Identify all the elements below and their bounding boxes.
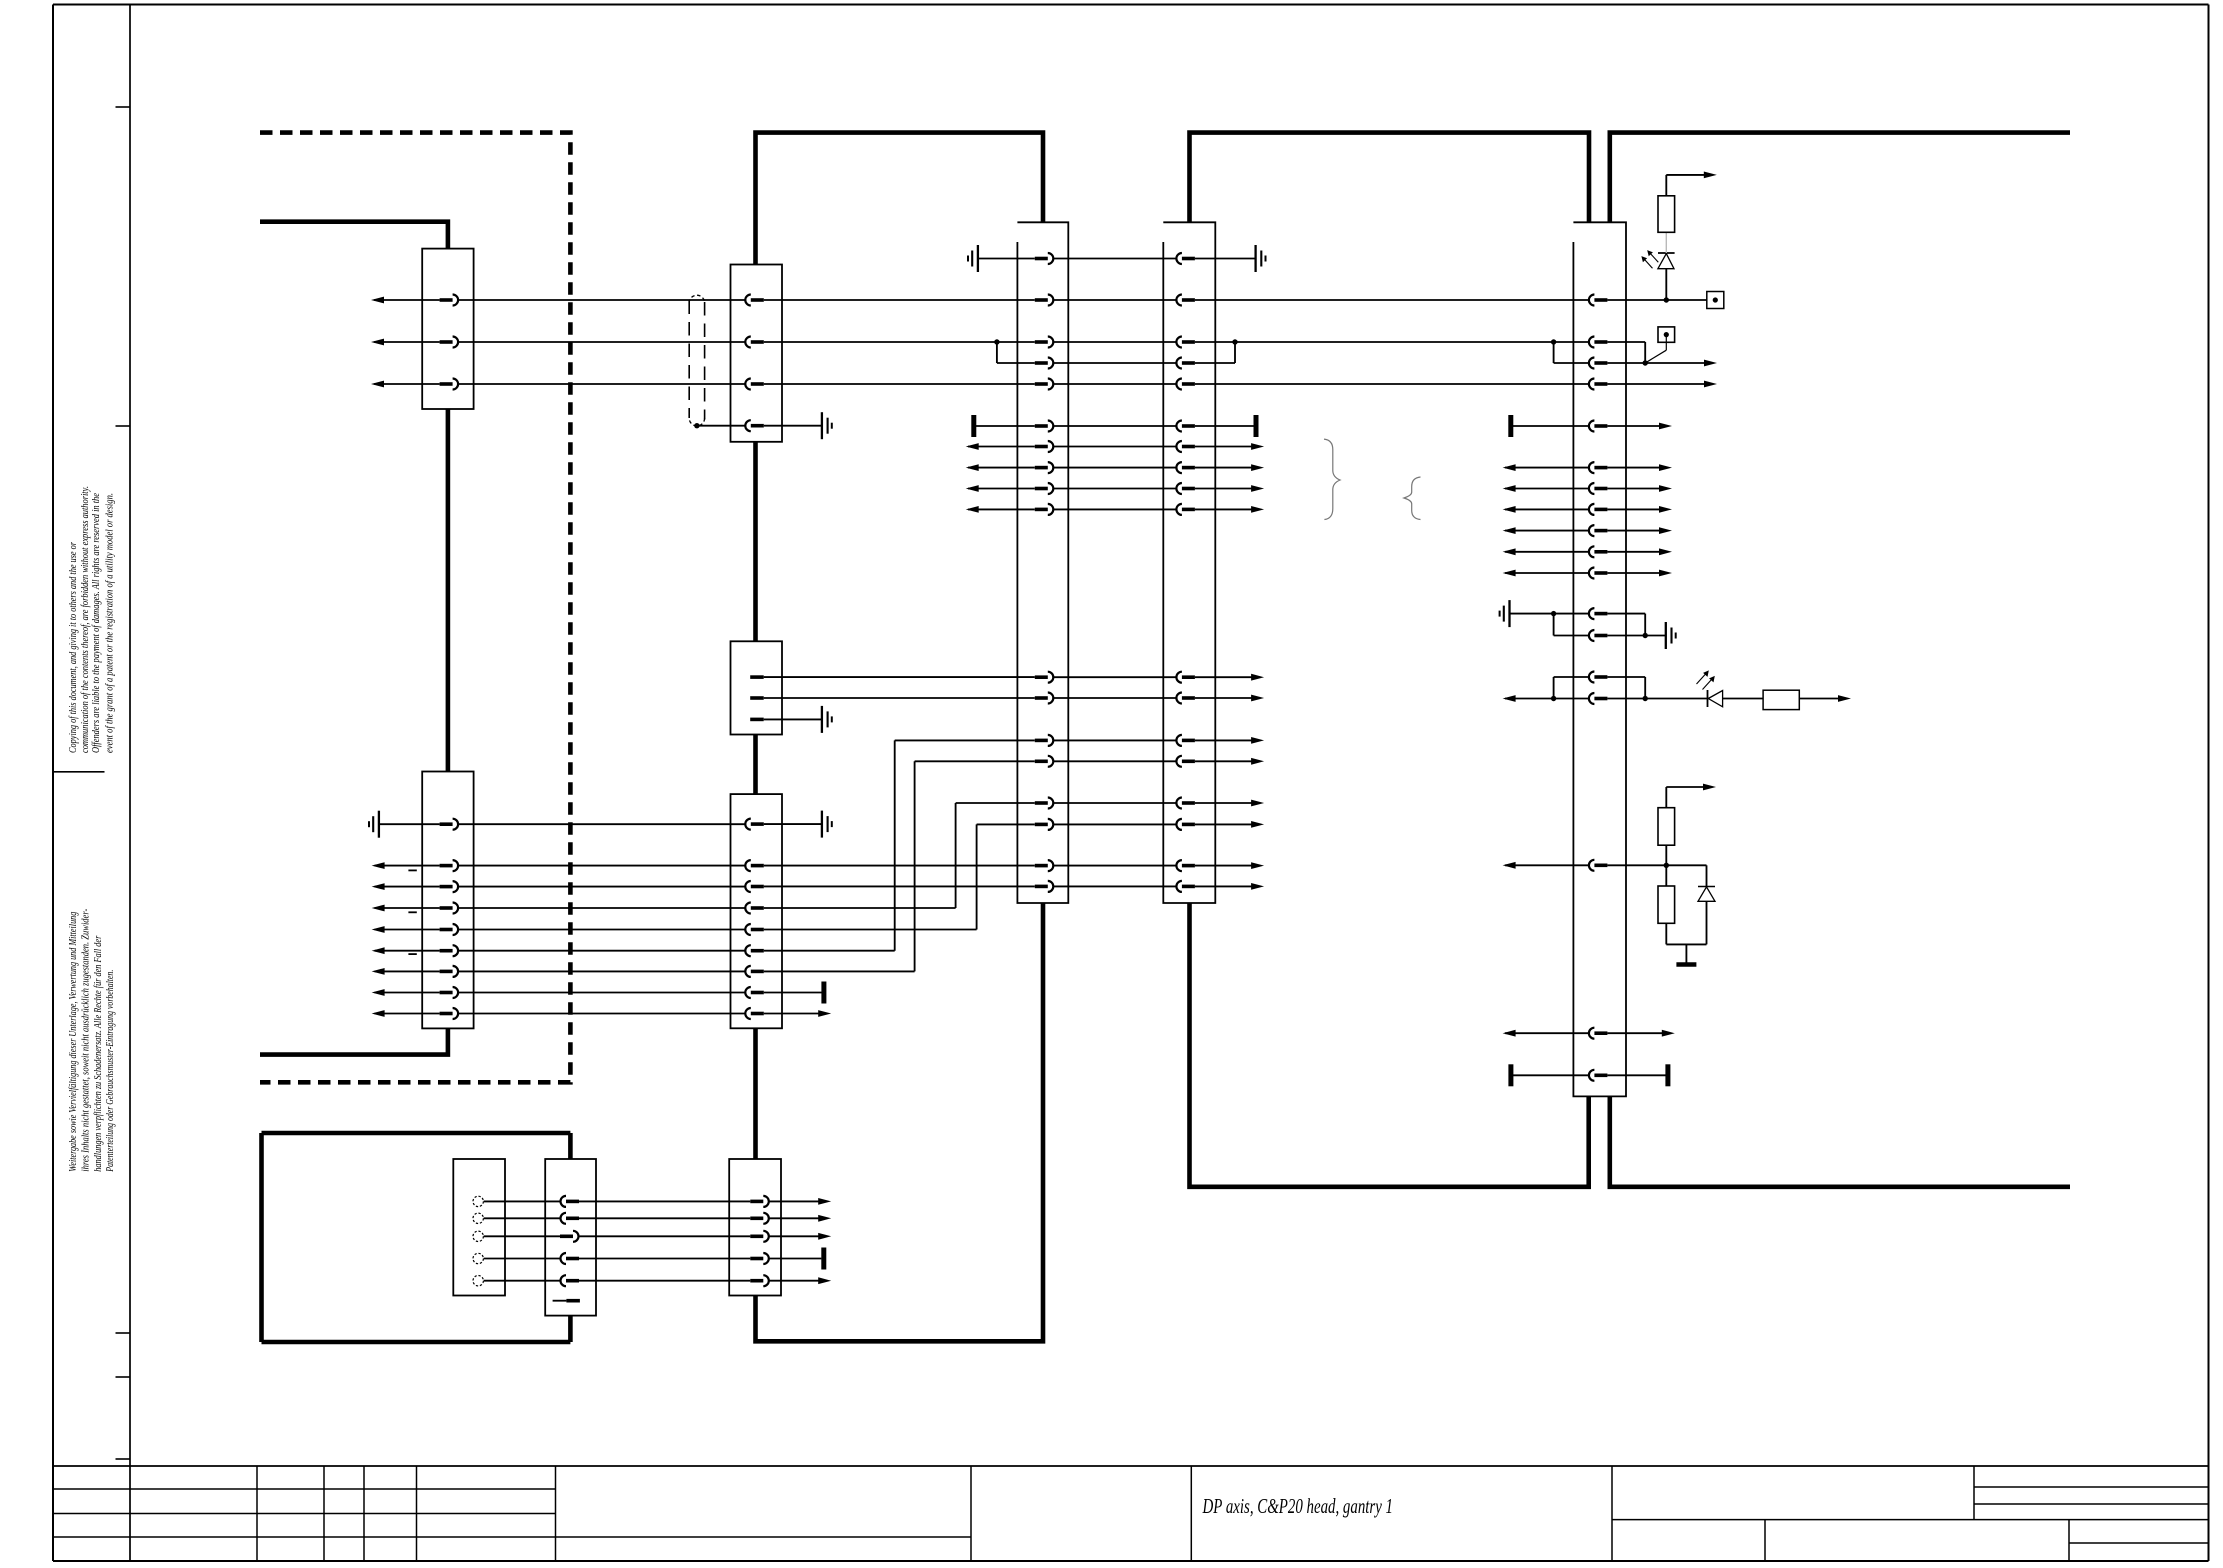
wire circle-B4 y1201.4 [484,1200,561,1202]
wire row488.5 E left arrow [1503,485,1589,492]
junction row613 [1551,611,1556,616]
connector D [1163,222,1215,903]
inner frame line [129,5,131,1562]
wire R4 down [1665,923,1667,944]
wire bridge E 342-363 [1553,342,1555,363]
wire row824 B3-gnd [764,823,822,825]
wire LED1 anode [1665,269,1667,300]
wire bridge right 342-363 [1644,342,1646,363]
wire row467.6 left arrow [966,464,1035,471]
cable bus B2-B3 [753,735,758,795]
wire row740 step-C [895,739,1035,741]
pin D y865.6 [1176,860,1195,871]
wire row865 D arrow [1195,862,1264,869]
wire row971.4 A2 left arrow [372,968,440,975]
wire network bottom [1666,943,1706,945]
pin B5 y1236.3 [750,1231,769,1242]
wire row342 junction-C [997,341,1035,343]
svg-text:Offenders are liable to the pa: Offenders are liable to the payment of d… [91,493,102,753]
wire row1013.5 A2-B3 [458,1013,745,1015]
wire shield gnd [764,425,822,427]
pin E y384 [1589,379,1607,390]
pin E y698.5 [1589,693,1607,704]
resistor R3 [1658,808,1675,846]
wire to earth [1685,944,1687,962]
wire row613 gnd-junction [1510,613,1554,615]
wire row488.5 E right arrow [1607,485,1672,492]
pin A2 y1013.5 [440,1008,459,1019]
wire row886.6 A2-B3 [458,886,745,888]
contact circle y1258.5 [473,1253,483,1263]
earth bar [1676,962,1696,967]
wire B5 arrow y1218.3 [769,1215,831,1222]
wire row467.6 D arrow [1195,464,1264,471]
wire row677 B2-C [764,676,1035,678]
wire row488.5 left arrow [966,485,1035,492]
pin A2 y865.6 [440,860,459,871]
wire step x914 [914,761,916,971]
cable bus to connector A1 [260,222,448,249]
wire row929.5 A2-B3 [458,929,745,931]
cable shield [689,295,704,426]
wire row384 C-D [1053,383,1176,385]
wire bridge 613-635 right [1644,614,1646,636]
wire row384 D-E [1195,383,1589,385]
pin A1 y300 [440,295,459,306]
pin D y426 [1176,421,1195,432]
ground B3 row824 [822,811,832,838]
wire row467.6 E left arrow [1503,464,1589,471]
wire row971.4 A2-B3 [458,970,745,972]
wire row865.6 A2-B3 [458,865,745,867]
wire row509.4 left arrow [966,506,1035,513]
test point TP2 [1658,327,1675,342]
cable bus B1 top [756,133,1044,265]
pin B4 y1300.7 [553,1300,580,1302]
wire row698 E out [1607,698,1645,700]
pin E y573 [1589,568,1607,579]
contact circle y1201.4 [473,1196,483,1206]
wire row1033 E right arrow [1607,1030,1674,1037]
svg-text:DP axis, C&P20 head, gantry 1: DP axis, C&P20 head, gantry 1 [1202,1494,1393,1518]
wire row677 C-D [1053,676,1176,678]
pin C y740.4 [1035,735,1054,746]
wire B4-B5 y1280.7 [579,1280,750,1282]
pin C y426 [1035,421,1054,432]
wire row698 E left arrow [1503,695,1554,702]
pin A1 y384 [440,379,459,390]
wire row300 A1-B1 [458,299,745,301]
wire B3 row908 to step [764,907,956,909]
svg-text:handlungen verpflichten zu Sch: handlungen verpflichten zu Schadenersatz… [93,935,104,1172]
pin B5 y1280.7 [750,1275,769,1286]
wire shield-B1 [697,425,745,427]
wire B3 row971 to step [764,970,915,972]
pin E y300 [1589,295,1607,306]
wire row824 A2-B3 [458,823,745,825]
wire B3 row929 to step [764,929,977,931]
wire circle-B4 y1236.3 [484,1235,561,1237]
wire row342 A1 left arrow [371,339,440,346]
wire row384 E out arrow [1607,381,1717,388]
wire B4-B5 y1258.5 [579,1258,750,1260]
pin C y258.5 [1035,253,1054,264]
terminator B3 row992 [821,982,826,1004]
svg-text:Weitergabe sowie Vervielfältig: Weitergabe sowie Vervielfältigung dieser… [68,912,79,1172]
wire B4-B5 y1236.3 [579,1235,750,1237]
wire row824 D arrow [1195,821,1264,828]
ground row613 left [1500,600,1510,627]
connector E [1573,222,1626,1096]
pin B5 y1218.3 [750,1213,769,1224]
connector A2 [422,772,473,1029]
pin D y258.5 [1176,253,1195,264]
wire circle-B4 y1218.3 [484,1217,561,1219]
wire row300 E to test point [1607,299,1706,301]
contact circle y1280.7 [473,1276,483,1286]
junction row635 [1643,633,1648,638]
brace left [1404,477,1421,520]
wire row363 D-bridge [1195,362,1235,364]
wire B3 row950 to step [764,950,895,952]
svg-text:Copying of this document, and: Copying of this document, and giving it … [68,541,79,753]
pin D y342 [1176,337,1195,348]
wire row719 B2-gnd [764,718,822,720]
junction row342 E side [1551,339,1556,344]
ground row719 [822,706,832,733]
pin A2 y971.4 [440,966,459,977]
wire row698 C-D [1053,697,1176,699]
pin D y363 [1176,358,1195,369]
wire row426 C-D [1053,425,1176,427]
wire row677 E in [1554,676,1589,678]
wire row342 D to junction [1195,341,1554,343]
wire row342 B1 to junction [764,341,997,343]
pin B3 y950.7 [745,945,763,956]
wire row300 C-D [1053,299,1176,301]
pin B4 y1218.3 [561,1213,580,1224]
wire bridge 677-698 left [1553,677,1555,699]
pin E y467.6 [1589,462,1607,473]
pin E y426 [1589,421,1607,432]
wire row613 E out [1607,613,1645,615]
pin E y551.8 [1589,546,1607,557]
junction row342 mid [1232,339,1237,344]
wire LED1-R1 [1665,232,1667,253]
wire row992.5 A2-B3 [458,992,745,994]
wire row488.5 D arrow [1195,485,1264,492]
wire bridge mid 342-363 [1234,342,1236,363]
wire bridge 677-698 right [1644,677,1646,699]
LED V2 emission arrows [1697,670,1715,689]
connector A1 [422,249,473,409]
wire step x976 [976,824,978,929]
pin D y677.2 [1176,672,1195,683]
pin B3 y824.1 [745,819,763,830]
pin B5 y1201.4 [750,1196,769,1207]
pin C y467.6 [1035,462,1054,473]
pin A2 y992.5 [440,987,459,998]
wire row384 B1-C [764,383,1035,385]
wire row635 to gnd [1645,635,1666,637]
wire row551.8 E right arrow [1607,548,1672,555]
wire row573 E right arrow [1607,570,1672,577]
terminator row1075 right [1665,1064,1670,1086]
pin D y824.4 [1176,819,1195,830]
pin B5 y1258.5 [750,1253,769,1264]
wire row530.6 E right arrow [1607,527,1672,534]
LED V1 emission arrows [1641,250,1658,268]
wire row426 T-C [976,425,1035,427]
pin E y635.5 [1589,630,1607,641]
frame tick [116,1332,131,1334]
wire row950.7 A2-B3 [458,950,745,952]
wire row363 bridge-C [997,362,1035,364]
junction shield [694,423,699,428]
wire row426 E arrow [1607,423,1672,430]
wire row613 junction-E [1554,613,1589,615]
terminator row426 E left [1508,415,1513,437]
device enclosure box [262,1133,571,1342]
wire row886 D arrow [1195,883,1264,890]
pin B1 y300 [745,295,763,306]
wire B5 arrow y1280.7 [769,1277,831,1284]
wire row258 gnd-C [978,258,1035,260]
wire row1013.5 A2 left arrow [372,1010,440,1017]
wire row300 D-E [1195,299,1589,301]
svg-text:Patenterteilung oder Gebrauchs: Patenterteilung oder Gebrauchsmuster-Ein… [105,970,116,1173]
wire B5 row1258 to terminator [769,1258,822,1260]
pin C y384 [1035,379,1054,390]
wire bridge 613-635 left [1553,614,1555,636]
pin B2 y677.1 [750,675,764,679]
pin B3 y865.6 [745,860,763,871]
wire row363 E out [1607,362,1645,364]
wire row865.6 A2 left arrow [372,862,440,869]
test point TP1 [1707,292,1724,309]
pin B4 y1236.3 [560,1231,579,1242]
wire row761 C-D [1053,760,1176,762]
wire row509.4 D arrow [1195,506,1264,513]
wire zener drop [1706,865,1708,886]
cable bus from A2 [260,1028,448,1054]
wire row342 A1-B1 [458,341,745,343]
wire row1033 E left arrow [1503,1030,1589,1037]
pin A2 y886.6 [440,881,459,892]
wire row300 A1 left arrow [371,297,440,304]
pin D y446.5 [1176,441,1195,452]
pin E y1033.2 [1589,1028,1607,1039]
wire row740 D arrow [1195,737,1264,744]
ground row635 right [1666,622,1676,649]
contact circle y1236.3 [473,1231,483,1241]
svg-text:communication of the contents: communication of the contents thereof, a… [80,486,91,753]
cable bus D top [1190,133,1590,223]
wire row698 to LED2 [1645,698,1707,700]
wire row865 B3-C [764,865,1035,867]
pin B2 y719.4 [750,718,764,722]
dashed enclosure (cabinet boundary) [260,133,570,1083]
pin B3 y992.5 [745,987,763,998]
pin C y509.4 [1035,504,1054,515]
pin B1 y425.7 [745,420,763,431]
page border left [52,5,54,1562]
pin D y467.6 [1176,462,1195,473]
pin C y342 [1035,337,1054,348]
cable bus D-E bottom [1190,903,1589,1187]
wire row677 D arrow [1195,674,1264,681]
frame tick [116,1376,131,1378]
wire row803 step-C [956,802,1035,804]
pin E y342 [1589,337,1607,348]
wire row446.5 D arrow [1195,443,1264,450]
LED V2 [1708,690,1723,707]
wire row573 E left arrow [1503,570,1589,577]
resistor R4 [1658,886,1675,923]
pair mark [408,869,416,871]
wire row384 A1 left arrow [371,381,440,388]
wire row740 C-D [1053,739,1176,741]
cable bus B5-C bottom [756,903,1044,1341]
wire row677 E out [1607,676,1645,678]
cable bus A1-A2 [446,409,451,772]
pin C y761.3 [1035,756,1054,767]
pin A1 y342 [440,337,459,348]
wire B5 arrow y1201.4 [769,1198,831,1205]
title text [1202,1494,1393,1518]
pin C y363 [1035,358,1054,369]
wire row698 B2-C [764,697,1035,699]
wire row886 C-D [1053,885,1176,887]
wire row342 E out [1607,341,1645,343]
wire row258 D out [1195,258,1256,260]
wire row342 junction-E [1554,341,1589,343]
wire row824 step-C [977,823,1035,825]
wire row467.6 C-D [1053,467,1176,469]
wire junction-R4 [1665,865,1667,886]
wire row530.6 E left arrow [1503,527,1589,534]
page border top [53,4,2209,6]
terminal box with contacts [453,1159,505,1296]
pin E y488.5 [1589,483,1607,494]
pin D y803 [1176,798,1195,809]
frame tick [116,425,131,427]
wire B4-B5 y1201.4 [579,1200,750,1202]
wire row509.4 E left arrow [1503,506,1589,513]
pin C y488.5 [1035,483,1054,494]
pin D y384 [1176,379,1195,390]
wire row865 E out [1607,864,1706,866]
wire row258 C-D [1053,258,1176,260]
sidebar copyright text (german) [68,908,116,1172]
wire row908 A2 left arrow [372,905,440,912]
wire row908 A2-B3 [458,907,745,909]
junction row865 [1664,863,1669,868]
wire row509.4 C-D [1053,508,1176,510]
wire row824 C-D [1053,823,1176,825]
wire row992.5 A2 left arrow [372,989,440,996]
terminator B5 row1258 [821,1248,826,1270]
pin B4 y1201.4 [561,1196,580,1207]
pin C y446.5 [1035,441,1054,452]
wire row446.5 C-D [1053,446,1176,448]
junction row698 right [1643,696,1648,701]
wire to test point TP2 [1645,335,1666,363]
pin D y886.4 [1176,881,1195,892]
wire row886 B3-C [764,885,1035,887]
pin B2 y698 [750,696,764,700]
pin E y509.4 [1589,504,1608,515]
wire row363 C-D [1053,362,1176,364]
resistor R1 [1658,196,1675,233]
svg-text:ihres Inhalts nicht gestattet,: ihres Inhalts nicht gestattet, soweit ni… [81,908,92,1171]
wire row1075 T-E [1513,1074,1589,1076]
pin C y698 [1035,693,1054,704]
wire R2 out arrow [1799,695,1851,702]
wire row363 bridge-E [1554,362,1589,364]
LED V1 [1658,253,1675,269]
wire row467.6 E right arrow [1607,464,1672,471]
pin C y886.4 [1035,881,1054,892]
wire row886.6 A2 left arrow [372,883,440,890]
pin D y761.3 [1176,756,1195,767]
wire row426 T-E [1513,425,1589,427]
wire B3 row992 to terminator [764,992,822,994]
junction row698 left [1551,696,1556,701]
pin E y613.6 [1589,608,1607,619]
frame tick [116,106,131,108]
wire bridge left 342-363 [996,342,998,363]
wire row551.8 E left arrow [1503,548,1589,555]
junction row300 LED tap [1664,297,1669,302]
pin B3 y1013.5 [745,1008,763,1019]
wire row761 D arrow [1195,758,1264,765]
pin E y530.6 [1589,525,1607,536]
connector B2 [731,641,783,734]
wire R3 top arrow [1666,784,1716,791]
sidebar copyright text (english) [68,486,115,753]
wire B5 arrow y1236.3 [769,1233,831,1240]
wire row509.4 E right arrow [1607,506,1672,513]
frame tick [116,1458,131,1460]
resistor R2 [1763,690,1799,709]
wire B3 row1013 arrow [764,1010,831,1017]
connector C [1017,222,1068,903]
wire row363 arrow [1645,360,1717,367]
pin C y677.2 [1035,672,1054,683]
wire row635 E out [1607,635,1645,637]
cable bus B1-B2 [753,442,758,642]
wire B4-B5 y1218.3 [579,1217,750,1219]
pair mark [408,953,416,955]
wire row698 D arrow [1195,695,1264,702]
wire row488.5 C-D [1053,488,1176,490]
pin D y509.4 [1176,504,1195,515]
wire row824 gnd-A2 [379,823,440,825]
pin A2 y950.7 [440,945,459,956]
pin B3 y908 [745,903,763,914]
pin B3 y886.5 [745,881,763,892]
title block [53,1466,2209,1561]
ground shield [822,412,832,439]
wire row803 C-D [1053,802,1176,804]
pin E y865.3 [1589,860,1607,871]
pin B1 y342 [745,337,763,348]
pin E y1075.3 [1589,1070,1607,1081]
pin E y677 [1589,672,1607,683]
wire row950.7 A2 left arrow [372,947,440,954]
pin D y698 [1176,693,1195,704]
